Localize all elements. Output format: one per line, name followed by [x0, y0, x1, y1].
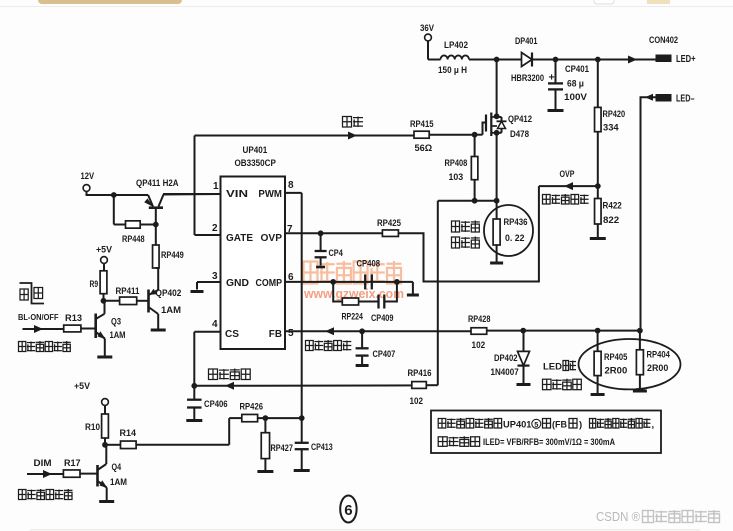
svg-text:QP412: QP412 — [508, 114, 532, 125]
svg-text:CS: CS — [225, 329, 239, 340]
svg-text:4: 4 — [212, 319, 218, 330]
svg-text:R9: R9 — [90, 279, 99, 290]
svg-text:FB: FB — [269, 329, 282, 340]
svg-text:OVP: OVP — [560, 169, 575, 180]
svg-text:6: 6 — [344, 502, 352, 519]
svg-text:DIM: DIM — [34, 458, 52, 469]
svg-text:RP416: RP416 — [408, 368, 432, 379]
svg-text:+5V: +5V — [96, 245, 113, 256]
svg-text:LED+: LED+ — [676, 54, 696, 65]
svg-text:1AM: 1AM — [161, 305, 181, 316]
svg-text:56Ω: 56Ω — [415, 143, 433, 154]
svg-text:+5V: +5V — [74, 381, 91, 392]
svg-text:2: 2 — [212, 223, 218, 234]
svg-text:RP408: RP408 — [445, 158, 468, 169]
svg-text:102: 102 — [410, 396, 424, 407]
svg-text:BL-ON/OFF: BL-ON/OFF — [18, 313, 59, 322]
svg-text:DP402: DP402 — [494, 353, 518, 364]
svg-text:102: 102 — [472, 340, 486, 351]
svg-text:68 μ: 68 μ — [567, 79, 584, 90]
svg-text:DP401: DP401 — [515, 36, 538, 47]
svg-text:QP402: QP402 — [156, 288, 182, 299]
svg-text:RP425: RP425 — [377, 218, 402, 229]
svg-text:3: 3 — [212, 271, 218, 282]
svg-text:1AM: 1AM — [110, 477, 127, 488]
svg-text:GND: GND — [226, 278, 249, 289]
svg-text:RP436: RP436 — [504, 217, 528, 228]
svg-text:CP406: CP406 — [204, 399, 228, 410]
svg-text:COMP: COMP — [256, 278, 283, 289]
svg-text:36V: 36V — [420, 23, 435, 34]
svg-text:8: 8 — [288, 180, 294, 191]
svg-text:CON402: CON402 — [649, 35, 678, 46]
svg-text:5: 5 — [288, 328, 294, 339]
svg-text:UP401: UP401 — [243, 145, 268, 156]
svg-text:150 μ H: 150 μ H — [438, 65, 467, 76]
svg-text:RP428: RP428 — [468, 314, 490, 325]
svg-text:+: + — [549, 72, 555, 84]
svg-text:R10: R10 — [85, 422, 100, 433]
svg-text:,: , — [652, 420, 655, 431]
svg-text:Q4: Q4 — [112, 462, 122, 473]
svg-text:(FB: (FB — [552, 420, 567, 431]
svg-text:CP407: CP407 — [373, 349, 396, 360]
svg-text:RP405: RP405 — [604, 352, 628, 363]
svg-text:2R00: 2R00 — [647, 363, 668, 374]
svg-text:RP426: RP426 — [240, 402, 264, 413]
svg-text:822: 822 — [603, 215, 619, 226]
svg-text:100V: 100V — [564, 92, 588, 103]
svg-text:R14: R14 — [120, 428, 137, 439]
svg-text:OVP: OVP — [261, 233, 283, 244]
svg-text:UP401: UP401 — [503, 420, 532, 431]
svg-text:RP449: RP449 — [161, 250, 184, 261]
svg-text:CP413: CP413 — [311, 442, 333, 453]
svg-text:0. 22: 0. 22 — [505, 233, 525, 244]
svg-text:CP4: CP4 — [329, 248, 344, 259]
svg-text:CP401: CP401 — [565, 64, 590, 75]
svg-text:RP427: RP427 — [271, 443, 293, 454]
svg-text:103: 103 — [449, 172, 464, 183]
svg-text:ILED= VFB/RFB= 300mV/1Ω = 300m: ILED= VFB/RFB= 300mV/1Ω = 300mA — [483, 437, 615, 448]
svg-text:OB3350CP: OB3350CP — [235, 158, 277, 169]
svg-text:LP402: LP402 — [444, 40, 468, 51]
svg-text:RP224: RP224 — [342, 312, 364, 323]
svg-text:LED–: LED– — [676, 94, 695, 105]
svg-text:RP404: RP404 — [647, 350, 671, 361]
svg-text:QP411 H2A: QP411 H2A — [136, 178, 179, 189]
svg-text:1: 1 — [213, 181, 219, 192]
svg-text:RP448: RP448 — [122, 234, 145, 245]
svg-text:RP411: RP411 — [116, 286, 141, 297]
svg-text:12V: 12V — [81, 171, 95, 182]
svg-text:Q3: Q3 — [111, 317, 121, 328]
svg-text:GATE: GATE — [226, 233, 253, 244]
svg-text:5: 5 — [534, 420, 538, 429]
svg-text:RP420: RP420 — [603, 109, 626, 120]
svg-text:334: 334 — [603, 123, 619, 134]
svg-text:): ) — [579, 420, 582, 431]
svg-text:LED: LED — [543, 362, 562, 373]
svg-text:VIN: VIN — [226, 189, 248, 200]
svg-text:CP408: CP408 — [357, 259, 381, 270]
svg-text:R422: R422 — [603, 201, 622, 212]
svg-text:PWM: PWM — [258, 189, 282, 200]
svg-text:CP409: CP409 — [371, 313, 394, 324]
svg-text:CSDN ®: CSDN ® — [596, 509, 640, 524]
svg-text:RP415: RP415 — [410, 119, 434, 130]
svg-text:D478: D478 — [510, 129, 529, 140]
svg-text:HBR3200: HBR3200 — [511, 73, 544, 84]
svg-text:2R00: 2R00 — [605, 366, 628, 377]
svg-text:R17: R17 — [64, 458, 81, 469]
svg-text:1AM: 1AM — [110, 330, 126, 341]
svg-text:1N4007: 1N4007 — [491, 367, 519, 378]
svg-text:R13: R13 — [65, 313, 82, 324]
